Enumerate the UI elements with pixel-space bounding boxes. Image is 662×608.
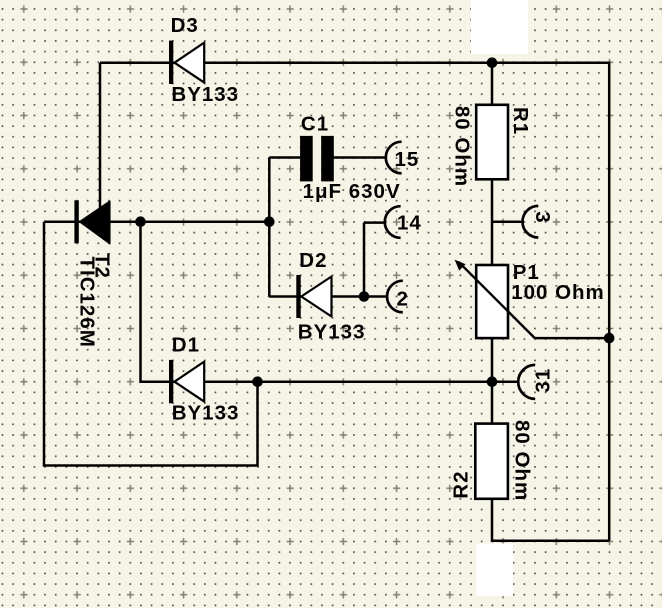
- svg-text:80 Ohm: 80 Ohm: [450, 106, 473, 187]
- svg-text:BY133: BY133: [298, 320, 366, 343]
- svg-text:100 Ohm: 100 Ohm: [511, 281, 605, 304]
- svg-text:1μF 630V: 1μF 630V: [303, 180, 401, 203]
- svg-text:BY133: BY133: [172, 402, 240, 425]
- svg-text:C1: C1: [301, 113, 329, 136]
- svg-text:D2: D2: [299, 249, 327, 272]
- svg-text:14: 14: [397, 212, 422, 235]
- svg-text:R1: R1: [509, 107, 532, 135]
- svg-text:D3: D3: [171, 14, 199, 37]
- svg-text:TIC126M: TIC126M: [76, 257, 99, 348]
- svg-text:D1: D1: [172, 334, 200, 357]
- svg-text:2: 2: [397, 288, 409, 311]
- svg-text:15: 15: [395, 148, 420, 171]
- svg-text:R2: R2: [450, 470, 473, 498]
- svg-text:3: 3: [531, 211, 554, 223]
- svg-text:80 Ohm: 80 Ohm: [511, 420, 534, 501]
- svg-text:BY133: BY133: [171, 83, 239, 106]
- svg-text:31: 31: [532, 368, 555, 393]
